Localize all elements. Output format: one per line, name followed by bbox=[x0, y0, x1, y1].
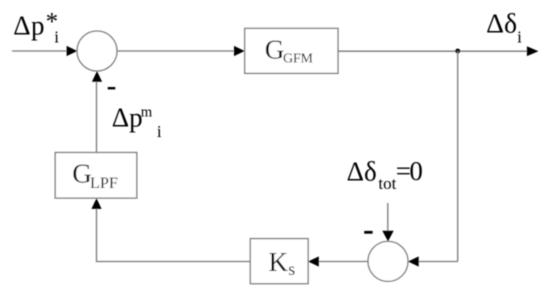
wire: summing junction 2 to K_s bbox=[319, 261, 368, 263]
svg-text:G: G bbox=[265, 35, 285, 65]
wire: summing junction 1 to G_GFM bbox=[117, 50, 234, 52]
arrowhead into G_LPF bottom bbox=[91, 198, 101, 209]
svg-text:Δp: Δp bbox=[13, 11, 45, 41]
svg-text:LPF: LPF bbox=[90, 174, 118, 192]
svg-text:m: m bbox=[141, 105, 153, 121]
arrowhead output bbox=[527, 46, 539, 56]
arrowhead into G_GFM bbox=[234, 46, 245, 56]
svg-text:i: i bbox=[517, 27, 522, 46]
svg-text:s: s bbox=[288, 259, 295, 279]
summing junction 1 bbox=[77, 31, 117, 71]
svg-text:Δδ: Δδ bbox=[486, 9, 517, 40]
wire: K_s to corner and up into G_LPF bbox=[97, 209, 251, 262]
wire: G_GFM to output bbox=[338, 50, 528, 52]
wire: G_LPF up to summing junction 1 bbox=[96, 81, 98, 152]
svg-text:K: K bbox=[269, 247, 289, 277]
svg-text:GFM: GFM bbox=[283, 52, 313, 67]
arrowhead into summing junction 2 right side bbox=[408, 256, 419, 266]
svg-text:i: i bbox=[157, 122, 162, 141]
arrowhead into K_s bbox=[308, 256, 319, 266]
wire: into summing junction 2 from right bbox=[419, 261, 458, 263]
wire: node down right side bbox=[457, 51, 459, 262]
svg-text:G: G bbox=[72, 159, 92, 189]
node: junction dot bbox=[455, 49, 460, 54]
arrowhead into summing junction 2 top bbox=[382, 231, 393, 242]
arrowhead into summing junction 1 bbox=[67, 46, 78, 56]
minus sign at summing junction 2 bbox=[364, 231, 372, 234]
minus sign at summing junction 1 bbox=[108, 87, 116, 89]
svg-text:Δp: Δp bbox=[112, 103, 143, 133]
svg-text:=0: =0 bbox=[396, 156, 423, 186]
svg-text:Δδ: Δδ bbox=[347, 156, 377, 186]
svg-text:tot: tot bbox=[378, 174, 396, 193]
block G_LPF bbox=[55, 153, 137, 199]
block K_s bbox=[250, 239, 308, 284]
block G_GFM bbox=[245, 28, 338, 73]
svg-text:i: i bbox=[54, 28, 59, 47]
arrowhead into summing junction 1 bottom bbox=[92, 71, 102, 82]
wire: delta tot arrow down into summing junction 2 bbox=[387, 203, 389, 231]
summing junction 2 bbox=[368, 241, 408, 281]
wire: input into summing junction bbox=[12, 50, 67, 52]
